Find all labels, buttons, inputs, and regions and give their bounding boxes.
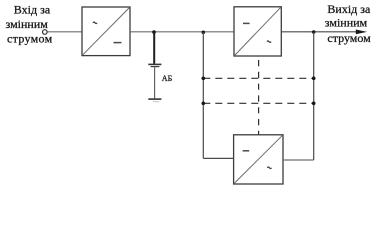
wire rectifier to inverter	[130, 31, 234, 33]
control dashed line lower horizontal	[203, 102, 313, 104]
svg-text:змінним: змінним	[325, 16, 368, 30]
svg-text:змінним: змінним	[6, 17, 49, 31]
wire U3 to right bypass	[283, 159, 314, 161]
svg-text:струмом: струмом	[327, 31, 371, 45]
node battery tap	[152, 30, 156, 34]
rectifier U1	[82, 7, 130, 56]
node dashed lower right	[312, 102, 316, 106]
battery АБ	[148, 32, 172, 102]
control dashed line upper horizontal	[203, 77, 313, 79]
wire left bypass to U3	[203, 157, 233, 159]
AC input label	[6, 2, 53, 45]
inverter U2	[234, 7, 281, 56]
node left bypass tap	[202, 31, 206, 35]
input terminal	[43, 30, 48, 35]
node dashed lower left	[202, 102, 206, 106]
inverter U3 bypass	[234, 135, 283, 184]
svg-text:АБ: АБ	[162, 74, 173, 83]
left bypass vertical wire	[202, 32, 204, 158]
svg-text:Вихід за: Вихід за	[327, 2, 371, 16]
wire input to rectifier	[47, 31, 82, 33]
node dashed upper left	[202, 77, 206, 81]
node right bypass tap	[312, 30, 316, 34]
svg-text:Вхід за: Вхід за	[14, 2, 51, 16]
output arrowhead	[356, 30, 367, 35]
control dashed line vertical	[258, 60, 260, 136]
right bypass vertical wire	[313, 32, 315, 160]
wire inverter to output	[281, 31, 360, 33]
AC output label	[325, 2, 371, 45]
node dashed upper right	[312, 77, 316, 81]
